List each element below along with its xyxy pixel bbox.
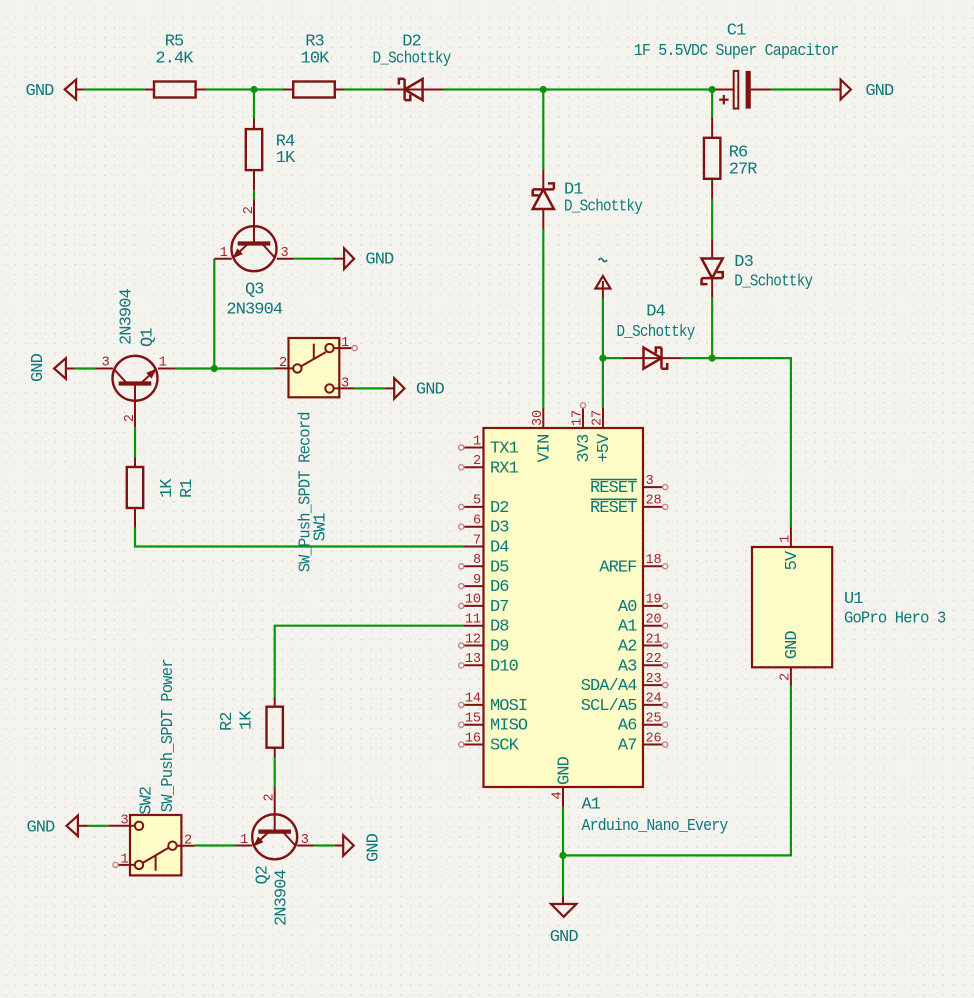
svg-text:D6: D6 bbox=[490, 578, 509, 597]
wire R4 to Q3 base bbox=[253, 191, 255, 200]
svg-text:26: 26 bbox=[646, 731, 662, 746]
wire Q1 emitter to SW1 pin2 bbox=[175, 367, 274, 369]
wire top rail: C1 to GND bbox=[771, 88, 831, 90]
svg-text:GND: GND bbox=[555, 756, 574, 785]
ground flag at Q3 collector bbox=[334, 248, 394, 269]
svg-text:D3: D3 bbox=[490, 519, 509, 538]
wire R1 to Arduino pin7 D4 bbox=[135, 527, 464, 547]
wire R2 to Q2 base bbox=[274, 757, 276, 788]
svg-text:+5V: +5V bbox=[595, 433, 614, 463]
svg-text:1: 1 bbox=[778, 535, 793, 543]
ground symbol bottom (A1 GND net) bbox=[550, 897, 579, 948]
svg-text:3: 3 bbox=[341, 376, 349, 391]
svg-text:A2: A2 bbox=[618, 638, 637, 657]
svg-text:11: 11 bbox=[465, 613, 481, 628]
svg-text:TX1: TX1 bbox=[490, 440, 519, 459]
svg-text:3: 3 bbox=[102, 355, 110, 370]
power flag ~ (unregulated supply) at +5V net bbox=[595, 258, 610, 297]
svg-text:30: 30 bbox=[531, 410, 546, 426]
diode D2 D_Schottky bbox=[373, 32, 452, 100]
svg-text:GND: GND bbox=[29, 353, 48, 382]
wire D4 to junction F bbox=[682, 357, 713, 359]
ground flag at SW1 pin3 bbox=[385, 378, 445, 399]
svg-text:3: 3 bbox=[646, 474, 654, 489]
svg-text:1: 1 bbox=[473, 434, 481, 449]
svg-text:D_Schottky: D_Schottky bbox=[617, 323, 696, 342]
svg-text:14: 14 bbox=[465, 692, 481, 707]
wire junction B down to D1 bbox=[542, 90, 544, 170]
svg-text:1: 1 bbox=[220, 246, 228, 261]
svg-text:21: 21 bbox=[646, 632, 662, 647]
wire top rail: D2 to C1 bbox=[443, 88, 716, 90]
svg-text:2N3904: 2N3904 bbox=[118, 288, 137, 345]
ground flag at Q1 collector bbox=[29, 353, 75, 382]
wire Q2 collector to GND flag bbox=[314, 844, 335, 846]
svg-text:20: 20 bbox=[646, 613, 662, 628]
svg-text:U1: U1 bbox=[844, 590, 863, 609]
junction node A (rail/R4) bbox=[250, 86, 257, 93]
svg-text:8: 8 bbox=[473, 553, 481, 568]
wire SW2 pin2 to Q2 base pin bbox=[195, 844, 235, 846]
svg-text:2: 2 bbox=[242, 206, 257, 214]
svg-text:GND: GND bbox=[550, 928, 579, 947]
svg-text:2N3904: 2N3904 bbox=[273, 869, 292, 926]
junction node G (GND net) bbox=[559, 852, 566, 859]
svg-text:1F 5.5VDC Super Capacitor: 1F 5.5VDC Super Capacitor bbox=[634, 42, 839, 61]
svg-text:SDA/A4: SDA/A4 bbox=[581, 677, 638, 696]
IC A1 Arduino_Nano_Every bbox=[459, 403, 728, 836]
resistor R3 10K bbox=[284, 32, 344, 97]
svg-text:D4: D4 bbox=[646, 303, 665, 322]
svg-text:R1: R1 bbox=[178, 479, 197, 498]
svg-text:1: 1 bbox=[120, 853, 128, 868]
wire SW2 pin3 to GND flag bbox=[88, 825, 109, 827]
svg-text:D7: D7 bbox=[490, 598, 509, 617]
wire Arduino pin11 D8 to R2 bbox=[275, 626, 464, 698]
wire power arrow to +5V pin through junction E bbox=[602, 298, 604, 409]
svg-text:2: 2 bbox=[473, 454, 481, 469]
wire U1 pin2 to junction G bbox=[563, 685, 791, 855]
wire Q3 emitter to junction D bbox=[213, 259, 215, 369]
svg-text:1: 1 bbox=[341, 336, 349, 351]
svg-text:D_Schottky: D_Schottky bbox=[734, 272, 813, 291]
ground flag top-left bbox=[26, 80, 85, 102]
resistor R5 2.4K bbox=[145, 32, 205, 97]
switch SW2 SW_Push_SPDT Power bbox=[108, 659, 194, 875]
wire D3 to junction F bbox=[711, 298, 713, 358]
svg-text:SW1: SW1 bbox=[312, 513, 331, 542]
svg-text:GND: GND bbox=[865, 82, 894, 101]
ground flag top-right bbox=[831, 80, 894, 102]
svg-text:4: 4 bbox=[551, 791, 566, 799]
diode D4 D_Schottky bbox=[617, 303, 696, 369]
svg-text:16: 16 bbox=[465, 731, 481, 746]
svg-text:2: 2 bbox=[263, 793, 278, 801]
svg-text:A7: A7 bbox=[618, 737, 637, 756]
svg-text:1K: 1K bbox=[276, 149, 296, 168]
svg-text:6: 6 bbox=[473, 514, 481, 529]
transistor Q2 2N3904 bbox=[235, 787, 313, 926]
junction node F (D3/D4/U1) bbox=[709, 355, 716, 362]
svg-text:2: 2 bbox=[279, 356, 287, 371]
svg-text:15: 15 bbox=[465, 712, 481, 727]
svg-text:A1: A1 bbox=[582, 796, 601, 815]
svg-text:13: 13 bbox=[465, 652, 481, 667]
svg-text:1: 1 bbox=[240, 833, 248, 848]
svg-text:A0: A0 bbox=[618, 598, 637, 617]
svg-text:GoPro Hero 3: GoPro Hero 3 bbox=[844, 610, 946, 629]
svg-text:D2: D2 bbox=[490, 499, 509, 518]
wire Q1 base to R1 bbox=[134, 427, 136, 458]
wire junction A to R4 bbox=[253, 90, 255, 119]
svg-text:D3: D3 bbox=[734, 253, 753, 272]
svg-text:3: 3 bbox=[120, 814, 128, 829]
svg-text:SCK: SCK bbox=[490, 737, 520, 756]
svg-text:27R: 27R bbox=[729, 160, 758, 179]
svg-text:Q3: Q3 bbox=[245, 280, 264, 299]
wire junction E to D4 bbox=[603, 357, 623, 359]
diode D1 D_Schottky bbox=[533, 170, 643, 229]
junction node D (Q3/Q1-SW1) bbox=[211, 365, 218, 372]
svg-text:18: 18 bbox=[646, 553, 662, 568]
svg-text:12: 12 bbox=[465, 632, 481, 647]
svg-text:3: 3 bbox=[301, 833, 309, 848]
resistor R4 1K bbox=[246, 119, 296, 191]
svg-text:2.4K: 2.4K bbox=[155, 49, 194, 68]
svg-text:GND: GND bbox=[26, 818, 55, 837]
svg-text:R2: R2 bbox=[218, 712, 237, 731]
svg-text:A3: A3 bbox=[618, 657, 637, 676]
svg-text:2N3904: 2N3904 bbox=[226, 300, 283, 319]
svg-text:D5: D5 bbox=[490, 558, 509, 577]
ground flag at SW2 pin3 bbox=[26, 816, 87, 838]
svg-text:GND: GND bbox=[26, 82, 55, 101]
svg-text:10: 10 bbox=[465, 593, 481, 608]
svg-text:RX1: RX1 bbox=[490, 459, 519, 478]
svg-text:1K: 1K bbox=[158, 478, 177, 498]
svg-text:Arduino_Nano_Every: Arduino_Nano_Every bbox=[582, 817, 729, 836]
svg-text:24: 24 bbox=[646, 692, 662, 707]
svg-text:3V3: 3V3 bbox=[575, 434, 594, 463]
svg-text:A1: A1 bbox=[618, 618, 637, 637]
svg-text:25: 25 bbox=[646, 712, 662, 727]
diode D3 D_Schottky bbox=[702, 239, 813, 298]
junction node E (+5V/D4) bbox=[599, 355, 606, 362]
wire Arduino GND pin to GND symbol bbox=[562, 807, 564, 897]
svg-text:SW2: SW2 bbox=[138, 787, 157, 815]
svg-text:19: 19 bbox=[646, 593, 662, 608]
svg-text:10K: 10K bbox=[301, 49, 331, 68]
wire junction F to U1 pin1 bbox=[712, 358, 791, 527]
wire SW1 pin3 to GND flag bbox=[354, 387, 385, 389]
svg-text:2: 2 bbox=[778, 673, 793, 681]
ground flag at Q2 collector bbox=[334, 833, 383, 862]
svg-text:C1: C1 bbox=[727, 22, 746, 41]
IC U1 GoPro Hero 3 bbox=[752, 528, 946, 686]
switch SW1 SW_Push_SPDT Record bbox=[274, 336, 357, 572]
svg-text:AREF: AREF bbox=[599, 558, 636, 577]
transistor Q1 2N3904 bbox=[95, 288, 175, 427]
svg-text:GND: GND bbox=[365, 251, 394, 270]
wire top rail: GND to R5 bbox=[85, 88, 145, 90]
svg-text:RESET: RESET bbox=[590, 499, 637, 518]
svg-text:GND: GND bbox=[416, 381, 445, 400]
svg-text:5: 5 bbox=[473, 494, 481, 509]
svg-text:Q1: Q1 bbox=[139, 328, 158, 347]
svg-text:9: 9 bbox=[473, 573, 481, 588]
svg-text:28: 28 bbox=[646, 494, 662, 509]
capacitor C1 1F 5.5VDC Super Capacitor bbox=[634, 22, 839, 109]
svg-text:SW_Push_SPDT Record: SW_Push_SPDT Record bbox=[297, 412, 316, 572]
junction node C (rail/R6) bbox=[709, 86, 716, 93]
svg-text:D_Schottky: D_Schottky bbox=[373, 49, 452, 68]
svg-text:D_Schottky: D_Schottky bbox=[564, 197, 643, 216]
svg-text:A6: A6 bbox=[618, 717, 637, 736]
svg-text:D4: D4 bbox=[490, 539, 509, 558]
svg-text:2: 2 bbox=[184, 834, 192, 849]
junction node B (rail/D1) bbox=[540, 86, 547, 93]
wire junction C down to R6 bbox=[711, 90, 713, 119]
transistor Q3 2N3904 bbox=[214, 200, 293, 320]
svg-text:23: 23 bbox=[646, 672, 662, 687]
wire top rail: R5 to R3 bbox=[204, 88, 285, 90]
svg-text:Q2: Q2 bbox=[254, 866, 273, 885]
svg-text:7: 7 bbox=[473, 533, 481, 548]
svg-text:2: 2 bbox=[123, 414, 138, 422]
wire Q3 collector to GND flag bbox=[294, 258, 335, 260]
svg-text:GND: GND bbox=[364, 833, 383, 862]
svg-text:3: 3 bbox=[280, 246, 288, 261]
svg-text:27: 27 bbox=[591, 410, 606, 426]
svg-text:MOSI: MOSI bbox=[490, 697, 527, 716]
svg-text:22: 22 bbox=[646, 652, 662, 667]
resistor R2 1K bbox=[218, 698, 283, 757]
svg-text:17: 17 bbox=[571, 410, 586, 426]
resistor R1 1K bbox=[127, 458, 197, 528]
wire top rail: R3 to D2 bbox=[344, 88, 385, 90]
svg-text:D8: D8 bbox=[490, 618, 509, 637]
wire D1 to VIN pin bbox=[542, 229, 544, 409]
wire R6 to D3 bbox=[711, 199, 713, 240]
svg-text:VIN: VIN bbox=[535, 435, 554, 463]
wire Q1 collector to GND flag bbox=[75, 367, 95, 369]
svg-text:RESET: RESET bbox=[590, 479, 637, 498]
svg-text:GND: GND bbox=[783, 631, 802, 660]
svg-text:MISO: MISO bbox=[490, 717, 528, 736]
svg-text:D10: D10 bbox=[490, 657, 519, 676]
svg-text:SW_Push_SPDT Power: SW_Push_SPDT Power bbox=[159, 659, 178, 812]
svg-text:1K: 1K bbox=[238, 710, 257, 730]
svg-text:1: 1 bbox=[159, 355, 167, 370]
svg-text:5V: 5V bbox=[783, 550, 802, 570]
resistor R6 27R bbox=[704, 118, 757, 199]
svg-text:SCL/A5: SCL/A5 bbox=[581, 697, 638, 716]
svg-text:D9: D9 bbox=[490, 638, 509, 657]
